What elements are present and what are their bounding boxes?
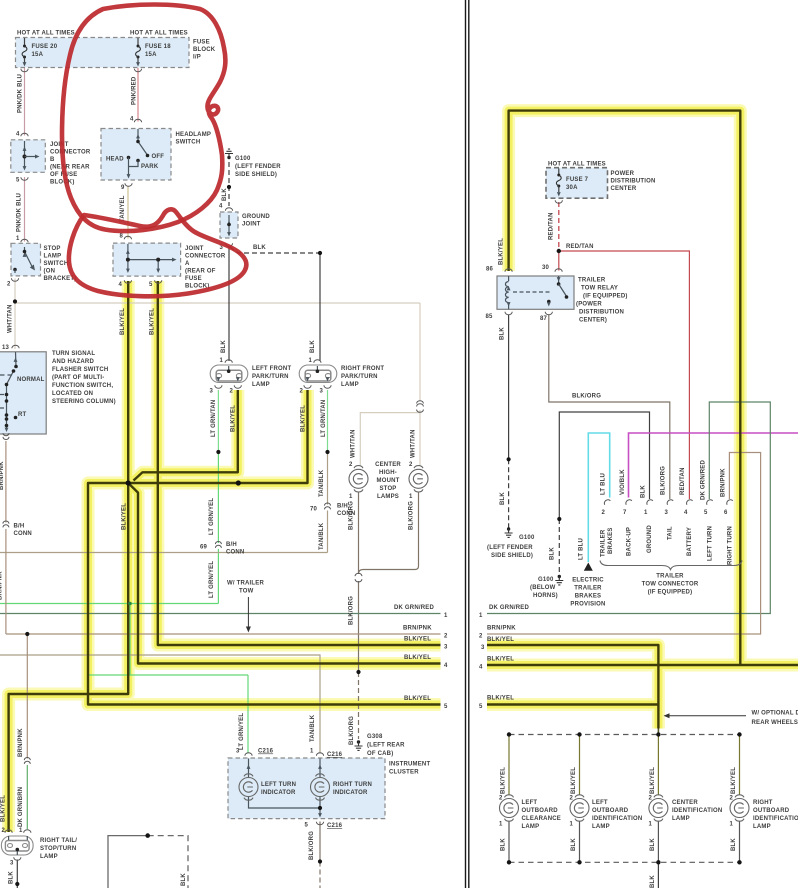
svg-text:BLK/YEL: BLK/YEL xyxy=(650,767,656,794)
labels left panel top xyxy=(7,31,281,290)
svg-text:PARK/TURN: PARK/TURN xyxy=(252,374,289,380)
wire BLK/ORG merged down to splice xyxy=(358,581,360,672)
svg-text:IDENTIFICATION: IDENTIFICATION xyxy=(592,816,642,822)
fuse block top entries xyxy=(25,38,139,45)
joint connector A box xyxy=(113,243,181,276)
b/h conn on BRN/PNK lower xyxy=(24,758,30,764)
svg-text:B/H: B/H xyxy=(226,542,237,548)
svg-text:BLK/YEL: BLK/YEL xyxy=(571,767,577,794)
turn signal switch internals xyxy=(0,345,19,439)
G100 left fender ground symbol (left panel) xyxy=(225,149,233,159)
splice dot on right lamp wire xyxy=(325,450,329,454)
wire LT GRN/YEL splice to conn 69 and down xyxy=(217,452,219,604)
wire BRN/PNK right panel to right turn pin xyxy=(487,453,761,635)
svg-text:PARK: PARK xyxy=(141,164,159,170)
wire BLK tail lamp pin3 down xyxy=(16,860,18,888)
splice dot LT GRN on left lamp wire xyxy=(216,450,220,454)
svg-text:CENTER: CENTER xyxy=(611,186,637,192)
svg-text:FUSE: FUSE xyxy=(193,40,210,46)
wire LT GRN/TAN right lamp pin3 xyxy=(327,390,329,452)
svg-text:3: 3 xyxy=(210,389,214,395)
wire BRN/PNK branch down to tail lamp xyxy=(26,634,28,759)
svg-text:3: 3 xyxy=(665,510,669,516)
left turn indicator bulb xyxy=(239,774,258,800)
wire BLK bottom left solid elbow xyxy=(108,836,148,888)
inline conn on WHT/TAN drop xyxy=(417,401,424,413)
svg-text:TAIL: TAIL xyxy=(668,526,674,540)
svg-text:IDENTIFICATION: IDENTIFICATION xyxy=(753,816,798,822)
svg-text:INDICATOR: INDICATOR xyxy=(261,790,296,796)
svg-text:1: 1 xyxy=(570,822,574,828)
svg-text:ELECTRIC: ELECTRIC xyxy=(572,578,604,584)
fuse 20 element xyxy=(22,45,27,59)
svg-text:4: 4 xyxy=(684,510,688,516)
G100 below horns ground symbol xyxy=(555,575,563,585)
svg-text:RIGHT TURN: RIGHT TURN xyxy=(333,782,372,788)
svg-text:1: 1 xyxy=(649,822,653,828)
svg-text:4: 4 xyxy=(16,132,20,138)
svg-text:WHT/TAN: WHT/TAN xyxy=(8,304,14,333)
wire BLK to right front lamp pin1 entry xyxy=(314,360,321,363)
svg-text:TOW RELAY: TOW RELAY xyxy=(581,286,618,292)
svg-text:RIGHT TURN: RIGHT TURN xyxy=(728,526,734,565)
svg-text:1: 1 xyxy=(349,494,353,500)
svg-text:4: 4 xyxy=(130,117,134,123)
fuse 18 element xyxy=(136,45,141,59)
svg-text:3: 3 xyxy=(320,389,324,395)
junction dot BLK/YEL at 238 xyxy=(236,480,241,485)
junction dot tail lamp BLK xyxy=(15,882,19,886)
wire BLK/ORG left stop bulb down xyxy=(358,492,360,574)
wire DK GRN/RED right panel to left turn pin xyxy=(487,402,770,614)
svg-text:(NEAR REAR: (NEAR REAR xyxy=(50,165,90,171)
svg-text:G100: G100 xyxy=(538,577,554,583)
svg-text:LAMPS: LAMPS xyxy=(377,494,399,500)
svg-text:LAMP: LAMP xyxy=(44,254,62,260)
svg-text:BLK: BLK xyxy=(501,838,507,851)
svg-text:3: 3 xyxy=(481,645,485,651)
center identification lamp bulb xyxy=(649,795,668,821)
svg-text:TAN/YEL: TAN/YEL xyxy=(120,195,126,222)
wire LT GRN/YEL down to instrument cluster pin3 xyxy=(247,675,249,754)
wire BLK/ORG right stop bulb down and merge xyxy=(359,492,419,574)
left front park/turn lamp xyxy=(210,365,248,383)
svg-text:SIDE SHIELD): SIDE SHIELD) xyxy=(235,172,277,178)
svg-text:13: 13 xyxy=(2,345,10,351)
svg-text:LT GRN/YEL: LT GRN/YEL xyxy=(239,713,245,750)
wire VIO/BLK back-up lamp feed xyxy=(629,433,798,498)
svg-text:PNK/DK BLU: PNK/DK BLU xyxy=(17,193,23,232)
svg-text:C216: C216 xyxy=(327,823,343,829)
wire TAN/BLK cluster pin1 into right indicator xyxy=(319,759,321,779)
svg-text:BRN/PNK: BRN/PNK xyxy=(403,626,432,632)
wire BLK relay pin85 down xyxy=(508,315,510,460)
svg-text:BLK/ORG: BLK/ORG xyxy=(309,831,315,860)
svg-text:IDENTIFICATION: IDENTIFICATION xyxy=(672,808,722,814)
electric trailer brakes triangle xyxy=(584,563,593,571)
svg-text:INDICATOR: INDICATOR xyxy=(333,790,368,796)
turn signal and hazard flasher switch box xyxy=(0,352,46,434)
svg-text:OF CAB): OF CAB) xyxy=(367,751,393,757)
svg-text:2: 2 xyxy=(7,282,11,288)
junction dot WHT/TAN at stop switch xyxy=(13,299,17,303)
trailer tow connector brace xyxy=(600,561,742,570)
svg-text:BLK/YEL: BLK/YEL xyxy=(1,795,7,822)
svg-text:B/H: B/H xyxy=(337,504,348,510)
svg-text:LAMP: LAMP xyxy=(672,816,690,822)
svg-text:BLK/ORG: BLK/ORG xyxy=(349,596,355,625)
svg-text:RED/TAN: RED/TAN xyxy=(549,212,555,240)
svg-text:PARK/TURN: PARK/TURN xyxy=(341,374,378,380)
svg-text:G308: G308 xyxy=(367,734,383,740)
svg-text:3: 3 xyxy=(10,861,14,867)
svg-text:RIGHT: RIGHT xyxy=(753,800,773,806)
splice dot RED/TAN xyxy=(557,249,561,253)
svg-text:HIGH-: HIGH- xyxy=(379,470,397,476)
svg-text:BLK/YEL: BLK/YEL xyxy=(487,657,514,663)
svg-text:B/H: B/H xyxy=(14,524,25,530)
svg-text:30: 30 xyxy=(542,265,550,271)
junction dot BRN/PNK branch xyxy=(25,632,29,636)
stop lamp switch internals xyxy=(11,239,35,281)
svg-text:BLK/YEL: BLK/YEL xyxy=(499,238,505,265)
svg-text:BRN/PNK: BRN/PNK xyxy=(487,626,516,632)
svg-text:BLK: BLK xyxy=(310,340,316,353)
wire WHT/TAN vertical drop to right stop bulb xyxy=(419,303,421,465)
svg-text:CLEARANCE: CLEARANCE xyxy=(522,816,561,822)
center high-mount stop lamp left bulb xyxy=(349,466,368,492)
b/h conn on BRN/PNK xyxy=(3,521,9,527)
svg-text:GROUND: GROUND xyxy=(647,525,653,553)
svg-text:BLK: BLK xyxy=(181,873,187,886)
svg-text:JOINT: JOINT xyxy=(242,222,261,228)
svg-text:BLK/YEL: BLK/YEL xyxy=(150,308,156,335)
trailer tow connector pin conns xyxy=(603,498,733,504)
svg-text:1: 1 xyxy=(309,358,313,364)
svg-text:(LEFT REAR: (LEFT REAR xyxy=(367,743,405,749)
wire stub below optional-wheels yellow to bus xyxy=(657,726,659,735)
svg-text:BLK: BLK xyxy=(221,340,227,353)
svg-text:BLK: BLK xyxy=(571,838,577,851)
svg-text:TOW CONNECTOR: TOW CONNECTOR xyxy=(642,582,699,588)
svg-text:FLASHER SWITCH: FLASHER SWITCH xyxy=(52,367,108,373)
svg-text:CONNECTOR: CONNECTOR xyxy=(50,150,91,156)
cluster entry arrows xyxy=(247,765,251,769)
junction dot BLK splice right xyxy=(318,251,322,255)
svg-text:MOUNT: MOUNT xyxy=(377,478,400,484)
svg-text:BLK/YEL: BLK/YEL xyxy=(487,696,514,702)
tail lamp entries xyxy=(5,830,12,833)
svg-text:5: 5 xyxy=(704,510,708,516)
svg-text:JOINT: JOINT xyxy=(50,142,69,148)
svg-text:BLK/ORG: BLK/ORG xyxy=(409,501,415,530)
right turn indicator bulb xyxy=(311,774,330,800)
svg-text:C216: C216 xyxy=(327,752,343,758)
svg-text:5: 5 xyxy=(16,178,20,184)
wire cluster indicator bottoms joined xyxy=(249,796,321,816)
svg-text:RED/TAN: RED/TAN xyxy=(680,467,686,495)
wire BRN/PNK turn signal switch down xyxy=(5,441,7,634)
wire LT BLU electric trailer brakes xyxy=(588,433,609,562)
svg-text:INSTRUMENT: INSTRUMENT xyxy=(389,762,430,768)
svg-text:3: 3 xyxy=(444,645,448,651)
wire BLK dashed to G100 below horns xyxy=(558,519,560,576)
svg-text:LT BLU: LT BLU xyxy=(579,538,585,560)
wire WHT/TAN stop lamp switch pin2 down to turn signal switch pin13 xyxy=(14,279,16,350)
wire PNK/RED fuse18 to headlamp switch xyxy=(137,68,139,122)
svg-text:(LEFT FENDER: (LEFT FENDER xyxy=(487,545,533,551)
svg-text:LEFT: LEFT xyxy=(592,800,608,806)
labels left panel bottom xyxy=(1,605,449,886)
svg-text:2: 2 xyxy=(602,510,606,516)
svg-text:BLK/YEL: BLK/YEL xyxy=(231,405,237,432)
svg-text:CENTER: CENTER xyxy=(375,462,401,468)
wire BLK/ORG cluster pin5 down xyxy=(319,822,321,862)
svg-text:(BELOW: (BELOW xyxy=(530,585,556,591)
junction dot BLK above ground joint xyxy=(227,185,231,189)
svg-text:2: 2 xyxy=(444,634,448,640)
wire RED/TAN horizontal to battery pin xyxy=(559,251,690,499)
wire BLK dashed ground joint to splice xyxy=(230,247,320,253)
headlamp switch internals xyxy=(125,119,149,186)
svg-text:2: 2 xyxy=(230,389,234,395)
svg-text:69: 69 xyxy=(200,545,208,551)
svg-text:LT BLU: LT BLU xyxy=(601,473,607,495)
svg-text:SWITCH: SWITCH xyxy=(44,261,69,267)
svg-text:15A: 15A xyxy=(32,52,44,58)
svg-text:BLK/YEL: BLK/YEL xyxy=(122,503,128,530)
svg-text:2: 2 xyxy=(2,828,6,834)
svg-text:CENTER: CENTER xyxy=(672,800,698,806)
wire LT GRN/YEL horizontal at 603 xyxy=(0,603,218,605)
svg-text:BLK: BLK xyxy=(550,547,556,560)
ground joint box xyxy=(220,212,238,238)
svg-text:30A: 30A xyxy=(566,185,578,191)
svg-text:TRAILER: TRAILER xyxy=(578,278,606,284)
wire LT GRN/TAN left lamp pin3 xyxy=(217,390,219,452)
svg-text:1: 1 xyxy=(220,358,224,364)
wire TAN/BLK horizontal at 552 xyxy=(0,552,328,554)
svg-text:PNK/RED: PNK/RED xyxy=(132,76,138,105)
svg-text:G100: G100 xyxy=(235,156,251,162)
svg-text:W/ TRAILER: W/ TRAILER xyxy=(227,581,264,587)
svg-text:1: 1 xyxy=(310,749,314,755)
svg-text:BRN/PNK: BRN/PNK xyxy=(721,468,727,497)
svg-text:TOW: TOW xyxy=(239,589,254,595)
wire TAN/BLK splice to conn70 down to horizontal xyxy=(327,452,329,553)
instrument cluster box xyxy=(228,758,385,819)
headlamp switch box xyxy=(101,129,171,181)
svg-text:LAMP: LAMP xyxy=(40,854,58,860)
svg-text:DK GRN/RED: DK GRN/RED xyxy=(394,605,434,611)
svg-text:LT GRN/TAN: LT GRN/TAN xyxy=(211,400,217,437)
svg-text:TAN/BLK: TAN/BLK xyxy=(319,522,325,550)
center high-mount stop lamp right bulb xyxy=(409,466,428,492)
svg-text:2: 2 xyxy=(300,389,304,395)
svg-text:FUSE 18: FUSE 18 xyxy=(145,44,171,50)
svg-text:BLK/ORG: BLK/ORG xyxy=(349,716,355,745)
svg-text:B: B xyxy=(50,157,55,163)
stop lamp switch box xyxy=(11,243,41,276)
svg-text:1: 1 xyxy=(499,822,503,828)
wire TAN/BLK instrument cluster pin1 up and left xyxy=(0,655,320,754)
svg-text:DISTRIBUTION: DISTRIBUTION xyxy=(611,179,656,185)
svg-text:AND HAZARD: AND HAZARD xyxy=(52,359,94,365)
svg-text:BRAKES: BRAKES xyxy=(608,527,614,554)
wire BLK dashed to G100 left fender xyxy=(508,459,510,529)
svg-text:1: 1 xyxy=(409,494,413,500)
svg-text:CONNECTOR: CONNECTOR xyxy=(185,254,226,260)
wire BLK ground joint pin3 to left front lamp pin1 xyxy=(228,246,230,361)
svg-text:DK GRN/BRN: DK GRN/BRN xyxy=(18,787,24,827)
trailer tow relay internals xyxy=(505,276,568,309)
svg-text:STOP/TURN: STOP/TURN xyxy=(40,846,76,852)
svg-text:4: 4 xyxy=(219,204,223,210)
svg-text:W/ OPTIONAL DUAL: W/ OPTIONAL DUAL xyxy=(752,711,798,717)
arrow w/ optional dual rear wheels xyxy=(664,713,747,718)
svg-text:5: 5 xyxy=(479,704,483,710)
svg-text:LAMP: LAMP xyxy=(753,824,771,830)
svg-text:2: 2 xyxy=(349,462,353,468)
svg-text:FUSE 20: FUSE 20 xyxy=(32,44,58,50)
svg-text:WHT/TAN: WHT/TAN xyxy=(411,429,417,458)
svg-text:LAMP: LAMP xyxy=(592,824,610,830)
svg-text:BLK/YEL: BLK/YEL xyxy=(120,308,126,335)
G100 left fender ground symbol (right panel) xyxy=(505,527,513,537)
wire BLK bottom dashed to right and down xyxy=(148,836,188,888)
svg-text:1: 1 xyxy=(730,822,734,828)
svg-text:A: A xyxy=(185,261,190,267)
svg-text:BRN/PNK: BRN/PNK xyxy=(0,571,4,600)
wire BLK below bottom bus xyxy=(657,862,659,888)
junction dot bottom BLK dashed xyxy=(145,833,150,838)
wire BLK/ORG relay pin87 to tail pin xyxy=(549,315,670,500)
svg-text:2: 2 xyxy=(730,796,734,802)
wire WHT/TAN horizontal run to center stop lamps xyxy=(15,302,420,304)
svg-text:87: 87 xyxy=(540,316,548,322)
svg-text:DK GRN/RED: DK GRN/RED xyxy=(701,460,707,500)
svg-text:2: 2 xyxy=(409,462,413,468)
junction dot cluster bottom xyxy=(318,806,322,810)
wire 2 BRN/PNK horizontal xyxy=(6,633,441,635)
right front park/turn lamp xyxy=(299,365,337,383)
right panel: PDC fuse top/bottom stubs xyxy=(558,169,560,193)
panel divider double line xyxy=(466,0,469,888)
svg-text:BLK/YEL: BLK/YEL xyxy=(731,767,737,794)
svg-text:BACK-UP: BACK-UP xyxy=(627,527,633,556)
G308 ground symbol xyxy=(355,740,363,750)
red freehand circle around fuse block and headlamp circuit xyxy=(62,5,225,232)
svg-text:BLK: BLK xyxy=(731,838,737,851)
red freehand circle around joint connector A xyxy=(69,209,247,296)
labels clearance lamps xyxy=(499,767,798,888)
svg-text:STEERING COLUMN): STEERING COLUMN) xyxy=(52,399,116,405)
svg-text:BRAKES: BRAKES xyxy=(575,594,602,600)
svg-text:FUSE: FUSE xyxy=(185,276,202,282)
svg-text:BLK/ORG: BLK/ORG xyxy=(661,466,667,495)
svg-text:BLK: BLK xyxy=(650,838,656,851)
svg-text:LAMP: LAMP xyxy=(341,382,359,388)
svg-text:2: 2 xyxy=(570,796,574,802)
svg-text:HOT AT ALL TIMES: HOT AT ALL TIMES xyxy=(17,31,75,37)
joint connector B box xyxy=(11,140,46,173)
fuse block I/P box xyxy=(16,38,190,68)
svg-text:LEFT TURN: LEFT TURN xyxy=(261,782,296,788)
svg-text:CONN: CONN xyxy=(226,550,244,556)
svg-text:BLK/YEL: BLK/YEL xyxy=(487,637,514,643)
svg-text:LAMP: LAMP xyxy=(522,824,540,830)
wire WHT/TAN branch to left stop bulb xyxy=(360,413,420,465)
svg-text:REAR WHEELS EQU: REAR WHEELS EQU xyxy=(752,720,798,726)
wire BLK/ORG dashed below splice xyxy=(319,862,321,888)
svg-text:TRAILER: TRAILER xyxy=(656,574,684,580)
splice dot BLK relay85 xyxy=(507,457,511,461)
arrow w/ trailer tow xyxy=(246,597,251,633)
svg-text:BRN/PNK: BRN/PNK xyxy=(0,461,5,490)
svg-text:1: 1 xyxy=(19,828,23,834)
svg-text:7: 7 xyxy=(623,510,627,516)
fuse 7 element xyxy=(556,174,561,188)
svg-text:CENTER): CENTER) xyxy=(579,318,607,324)
splice dot BLK ground wire xyxy=(557,517,561,521)
svg-text:BLK/YEL: BLK/YEL xyxy=(301,405,307,432)
wire PNK/DK BLU joint connector B to stop lamp switch xyxy=(24,177,26,242)
power distribution center box xyxy=(546,168,608,199)
wire LT GRN/YEL cluster pin3 into left indicator xyxy=(248,759,250,779)
svg-text:BLK: BLK xyxy=(9,871,15,884)
svg-text:8: 8 xyxy=(120,234,124,240)
svg-text:5: 5 xyxy=(444,704,448,710)
svg-text:OUTBOARD: OUTBOARD xyxy=(592,808,629,814)
svg-text:1: 1 xyxy=(479,613,483,619)
junction dot BLK/YEL main xyxy=(126,480,131,485)
inline conn on merged BLK/ORG xyxy=(355,573,362,582)
junction dot BLK/ORG below cluster xyxy=(318,859,322,863)
svg-text:BLK/YEL: BLK/YEL xyxy=(404,655,431,661)
svg-text:LT GRN/YEL: LT GRN/YEL xyxy=(209,498,215,535)
labels right panel xyxy=(479,162,798,727)
svg-text:(REAR OF: (REAR OF xyxy=(185,269,216,275)
svg-text:86: 86 xyxy=(486,267,494,273)
svg-text:DK GRN/RED: DK GRN/RED xyxy=(489,605,529,611)
svg-text:OUTBOARD: OUTBOARD xyxy=(753,808,790,814)
left outboard clearance lamp bulb xyxy=(500,795,519,821)
svg-text:RIGHT TAIL/: RIGHT TAIL/ xyxy=(40,838,77,844)
svg-text:5: 5 xyxy=(305,823,309,829)
ground joint internals xyxy=(225,208,232,247)
svg-text:PROVISION: PROVISION xyxy=(570,602,605,608)
svg-text:POWER: POWER xyxy=(611,171,635,177)
svg-text:BLK/YEL: BLK/YEL xyxy=(404,637,431,643)
svg-text:CONN: CONN xyxy=(14,531,32,537)
svg-text:LEFT: LEFT xyxy=(522,800,538,806)
svg-text:NORMAL: NORMAL xyxy=(17,377,45,383)
svg-text:G100: G100 xyxy=(519,535,535,541)
joint connector A internals xyxy=(124,236,176,283)
svg-text:BLK: BLK xyxy=(500,492,506,505)
svg-text:DISTRIBUTION: DISTRIBUTION xyxy=(579,310,624,316)
svg-text:LT GRN/TAN: LT GRN/TAN xyxy=(321,400,327,437)
svg-text:C216: C216 xyxy=(258,749,274,755)
svg-text:SWITCH: SWITCH xyxy=(176,140,201,146)
svg-text:TAN/BLK: TAN/BLK xyxy=(319,469,325,497)
svg-text:BLK/ORG: BLK/ORG xyxy=(349,501,355,530)
svg-text:BLOCK: BLOCK xyxy=(193,47,216,53)
svg-text:VIO/BLK: VIO/BLK xyxy=(620,469,626,495)
svg-text:BLK: BLK xyxy=(641,485,647,498)
svg-text:HORNS): HORNS) xyxy=(533,593,558,599)
svg-text:LT GRN/YEL: LT GRN/YEL xyxy=(209,561,215,598)
